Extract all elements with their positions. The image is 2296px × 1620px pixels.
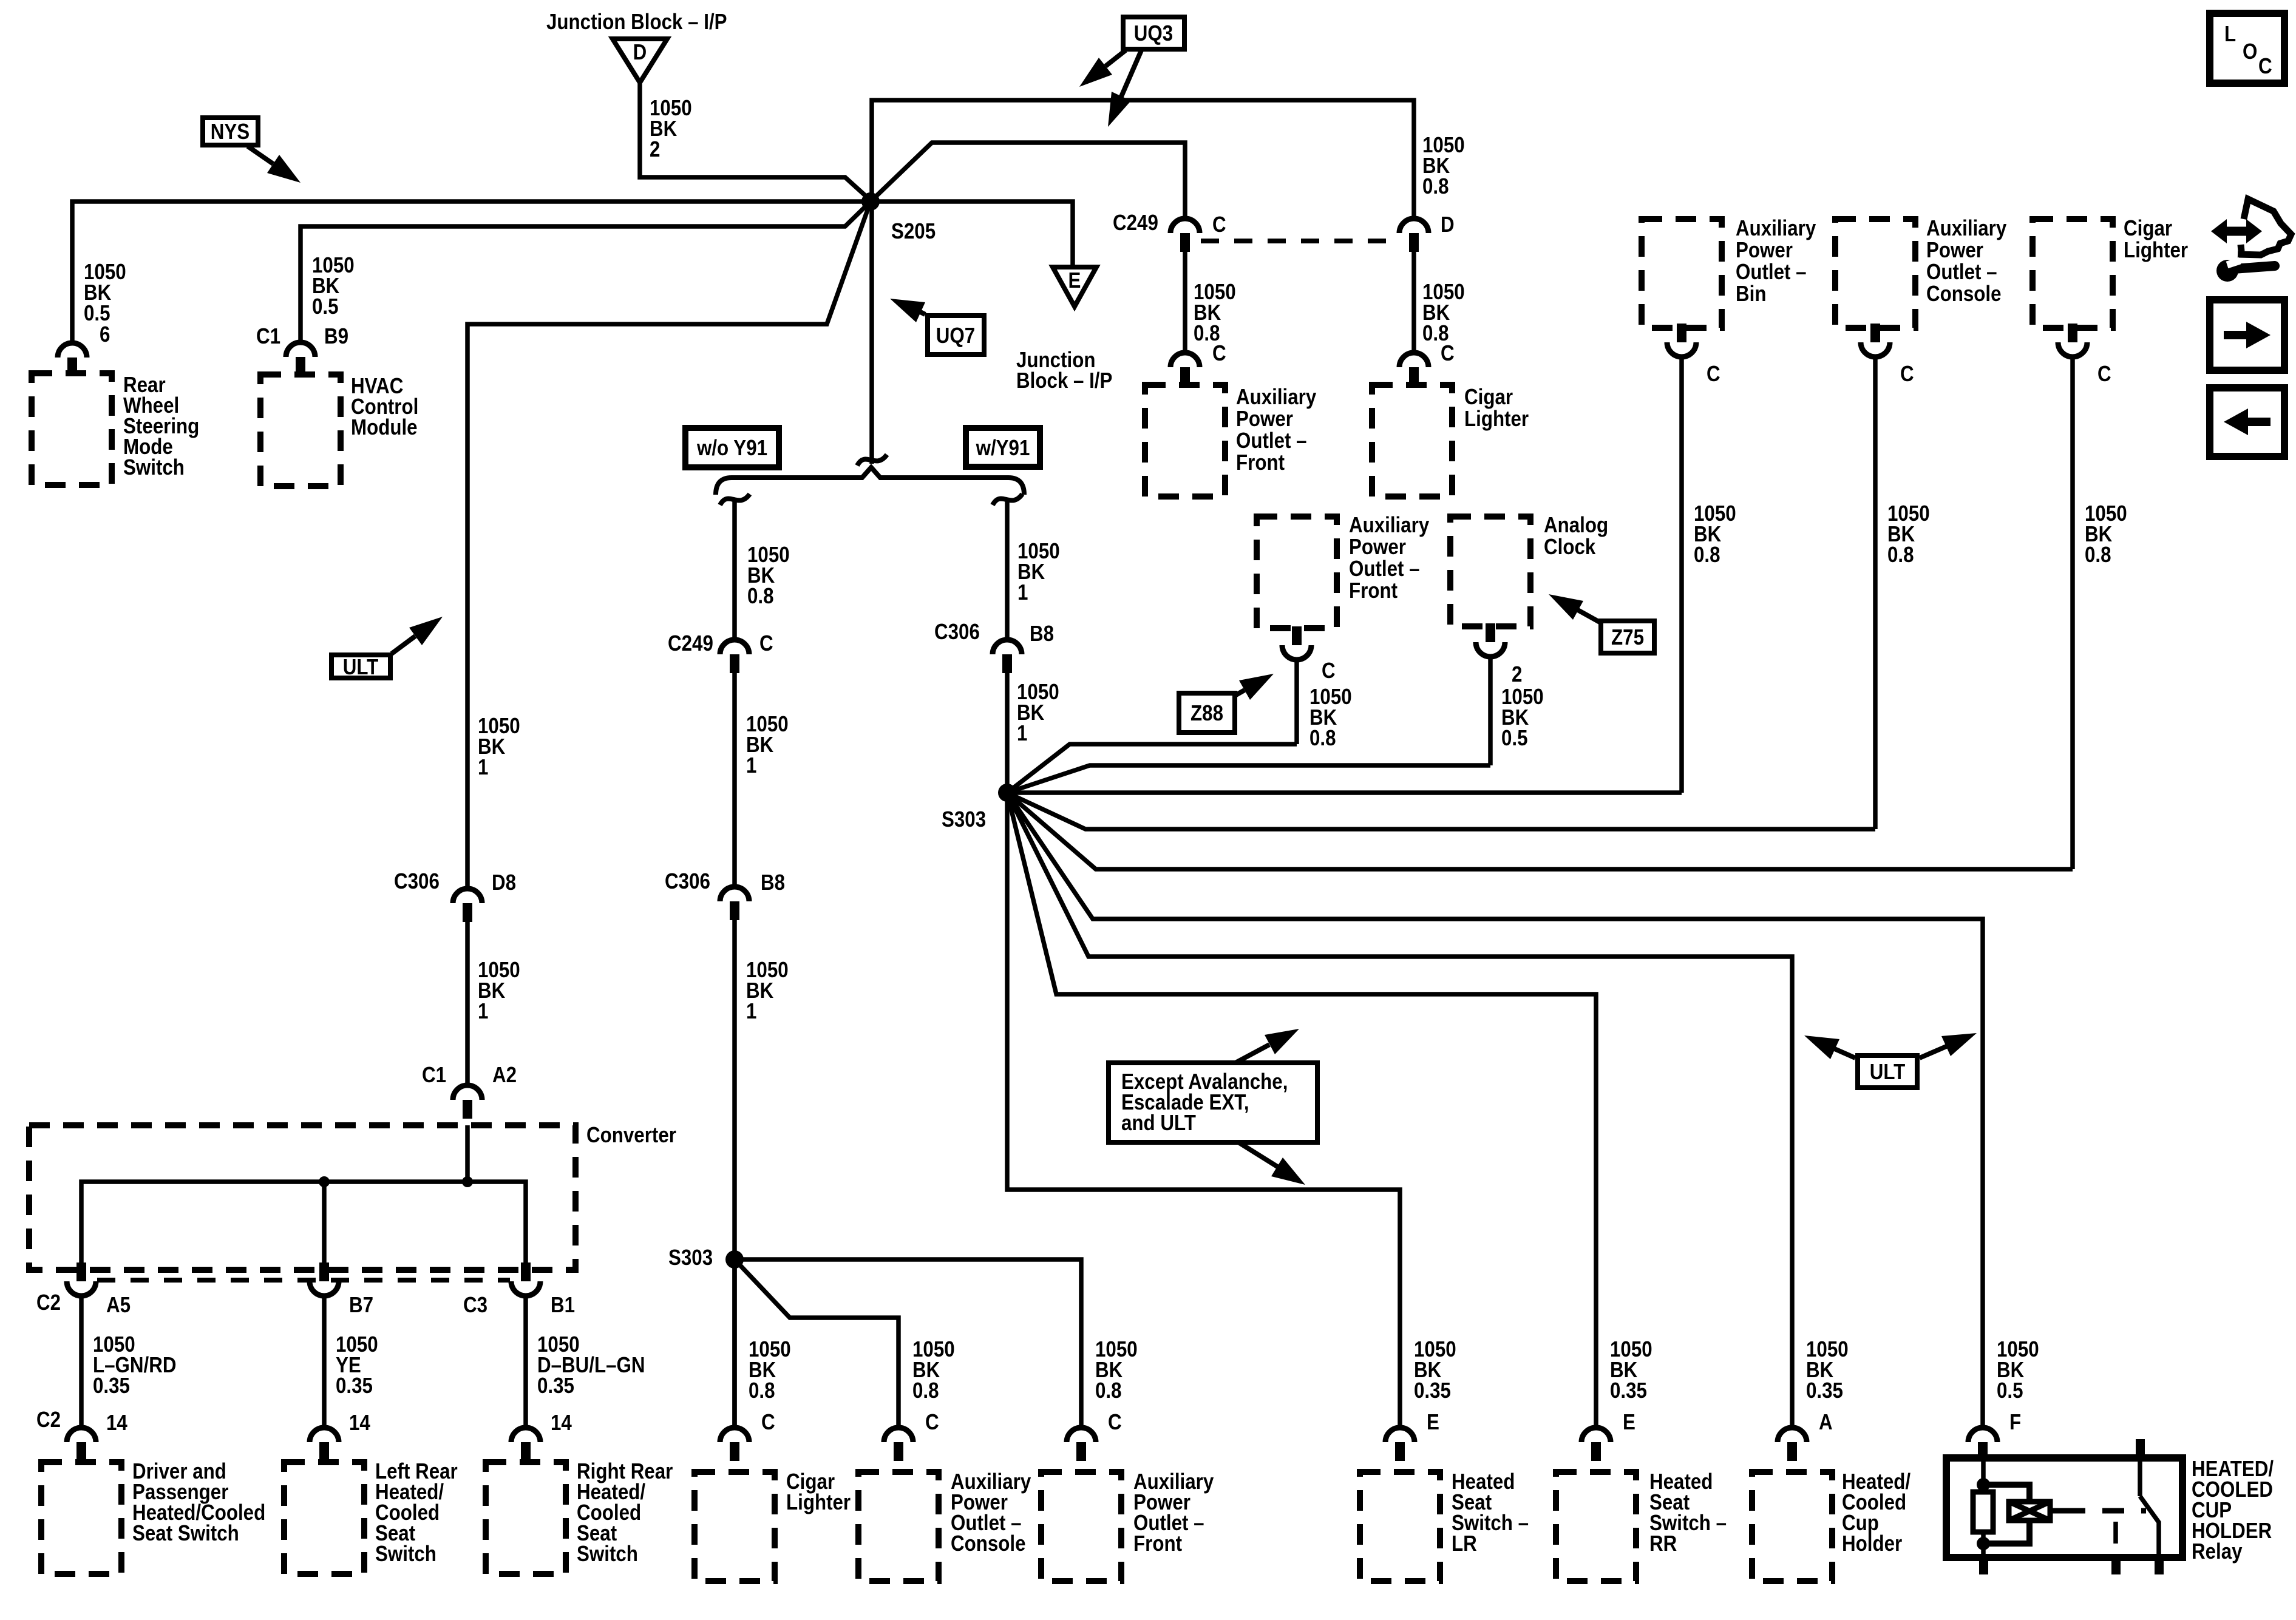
svg-text:C: C — [1108, 1410, 1122, 1435]
svg-text:C: C — [925, 1410, 939, 1435]
svg-text:Power: Power — [1349, 535, 1406, 560]
svg-text:Power: Power — [1926, 238, 1983, 263]
svg-text:0.8: 0.8 — [747, 584, 774, 609]
svg-text:C2: C2 — [36, 1408, 61, 1432]
svg-text:Auxiliary: Auxiliary — [1349, 513, 1429, 538]
svg-text:Auxiliary: Auxiliary — [1926, 216, 2006, 241]
svg-text:C: C — [759, 631, 773, 656]
svg-text:0.5: 0.5 — [312, 294, 339, 319]
svg-text:1: 1 — [746, 999, 756, 1024]
svg-text:14: 14 — [551, 1411, 572, 1435]
svg-text:C: C — [1707, 362, 1720, 387]
svg-text:Switch: Switch — [577, 1542, 638, 1567]
svg-text:2: 2 — [650, 137, 660, 162]
svg-text:Converter: Converter — [586, 1123, 676, 1148]
svg-text:Front: Front — [1236, 450, 1285, 475]
svg-text:Power: Power — [1736, 238, 1793, 263]
svg-text:Outlet –: Outlet – — [1236, 429, 1307, 453]
svg-text:C2: C2 — [36, 1290, 61, 1315]
svg-text:14: 14 — [349, 1411, 370, 1435]
svg-text:Holder: Holder — [1842, 1531, 1902, 1556]
svg-text:ULT: ULT — [1870, 1060, 1906, 1085]
svg-text:1: 1 — [746, 753, 756, 778]
svg-text:Block – I/P: Block – I/P — [1016, 368, 1112, 393]
svg-text:0.35: 0.35 — [93, 1374, 130, 1398]
svg-text:L: L — [2224, 22, 2236, 47]
svg-text:Outlet –: Outlet – — [1926, 260, 1997, 285]
svg-text:0.8: 0.8 — [1887, 543, 1914, 568]
svg-text:B1: B1 — [551, 1293, 575, 1318]
svg-text:D: D — [1441, 212, 1455, 237]
svg-text:D8: D8 — [492, 870, 516, 895]
svg-text:0.35: 0.35 — [537, 1374, 574, 1398]
svg-text:Auxiliary: Auxiliary — [1736, 216, 1816, 241]
svg-text:Relay: Relay — [2192, 1539, 2243, 1564]
svg-text:C: C — [1322, 659, 1336, 683]
svg-text:0.35: 0.35 — [1414, 1378, 1451, 1403]
svg-text:Lighter: Lighter — [1464, 407, 1529, 432]
svg-text:E: E — [1427, 1410, 1439, 1435]
svg-text:C249: C249 — [1113, 211, 1158, 236]
svg-text:0.5: 0.5 — [1501, 726, 1528, 751]
svg-text:Console: Console — [1926, 282, 2002, 307]
svg-text:C306: C306 — [394, 869, 440, 894]
svg-text:Switch: Switch — [123, 455, 185, 480]
svg-text:Front: Front — [1349, 578, 1398, 603]
svg-text:Bin: Bin — [1736, 282, 1766, 307]
svg-text:C249: C249 — [668, 631, 713, 656]
svg-text:Switch: Switch — [375, 1542, 436, 1567]
svg-text:C: C — [1900, 362, 1914, 387]
svg-text:Junction Block – I/P: Junction Block – I/P — [546, 10, 727, 35]
svg-text:Front: Front — [1133, 1531, 1182, 1556]
svg-text:C: C — [1212, 341, 1226, 366]
svg-text:NYS: NYS — [211, 120, 250, 144]
svg-text:1: 1 — [478, 999, 488, 1024]
svg-text:Console: Console — [951, 1531, 1026, 1556]
svg-text:0.35: 0.35 — [1610, 1378, 1647, 1403]
svg-text:C1: C1 — [256, 324, 280, 349]
svg-text:B8: B8 — [1030, 622, 1054, 646]
svg-text:LR: LR — [1452, 1531, 1477, 1556]
svg-text:C3: C3 — [463, 1293, 487, 1318]
svg-text:1: 1 — [478, 755, 488, 780]
svg-text:Module: Module — [351, 415, 418, 440]
svg-text:ULT: ULT — [343, 655, 379, 680]
svg-text:Lighter: Lighter — [2124, 238, 2188, 263]
svg-text:B7: B7 — [349, 1293, 373, 1318]
svg-text:0.5: 0.5 — [1997, 1378, 2023, 1403]
svg-text:C: C — [1441, 341, 1455, 366]
svg-text:C: C — [1212, 212, 1226, 237]
svg-text:Power: Power — [1236, 407, 1293, 432]
svg-text:Lighter: Lighter — [786, 1490, 851, 1515]
svg-text:Outlet –: Outlet – — [1349, 557, 1420, 581]
svg-text:O: O — [2243, 39, 2257, 64]
svg-text:S205: S205 — [891, 219, 936, 244]
svg-text:2: 2 — [1512, 662, 1522, 687]
svg-text:w/o Y91: w/o Y91 — [696, 436, 767, 461]
svg-text:14: 14 — [106, 1411, 127, 1435]
svg-text:6: 6 — [100, 322, 110, 347]
svg-text:Seat Switch: Seat Switch — [132, 1521, 239, 1546]
svg-text:A2: A2 — [492, 1063, 517, 1088]
svg-text:0.8: 0.8 — [1694, 543, 1720, 568]
svg-text:Clock: Clock — [1544, 535, 1595, 560]
svg-text:A5: A5 — [106, 1293, 131, 1318]
svg-text:D: D — [633, 40, 647, 65]
svg-text:E: E — [1068, 268, 1081, 293]
svg-text:UQ7: UQ7 — [936, 324, 975, 348]
svg-text:RR: RR — [1649, 1531, 1677, 1556]
svg-text:0.8: 0.8 — [2085, 543, 2111, 568]
svg-text:Z75: Z75 — [1611, 625, 1644, 650]
svg-text:Cigar: Cigar — [2124, 216, 2172, 241]
svg-text:w/Y91: w/Y91 — [976, 436, 1030, 461]
svg-text:Analog: Analog — [1544, 513, 1608, 538]
svg-text:0.8: 0.8 — [1309, 726, 1336, 751]
svg-text:0.8: 0.8 — [1095, 1378, 1122, 1403]
svg-text:Outlet –: Outlet – — [1736, 260, 1807, 285]
svg-text:C1: C1 — [422, 1063, 446, 1088]
svg-text:Cigar: Cigar — [1464, 385, 1513, 410]
svg-text:1: 1 — [1017, 580, 1028, 605]
svg-text:and ULT: and ULT — [1121, 1111, 1196, 1136]
svg-text:E: E — [1623, 1410, 1635, 1435]
svg-text:Auxiliary: Auxiliary — [1236, 385, 1316, 410]
svg-text:C: C — [761, 1410, 775, 1435]
svg-text:Z88: Z88 — [1190, 701, 1223, 726]
svg-text:B9: B9 — [324, 324, 348, 349]
svg-text:A: A — [1819, 1410, 1833, 1435]
svg-text:S303: S303 — [942, 807, 986, 832]
svg-text:0.35: 0.35 — [1806, 1378, 1843, 1403]
svg-text:F: F — [2009, 1410, 2021, 1435]
svg-text:0.8: 0.8 — [749, 1378, 775, 1403]
svg-text:S303: S303 — [668, 1246, 713, 1270]
svg-text:B8: B8 — [761, 870, 785, 895]
svg-text:C306: C306 — [934, 620, 980, 645]
svg-text:0.8: 0.8 — [1422, 174, 1449, 199]
svg-text:C: C — [2258, 54, 2272, 79]
svg-text:UQ3: UQ3 — [1134, 21, 1173, 46]
svg-text:1: 1 — [1017, 721, 1027, 746]
svg-text:C306: C306 — [665, 869, 710, 894]
svg-text:C: C — [2097, 362, 2111, 387]
svg-text:0.35: 0.35 — [336, 1374, 373, 1398]
svg-text:0.8: 0.8 — [912, 1378, 939, 1403]
